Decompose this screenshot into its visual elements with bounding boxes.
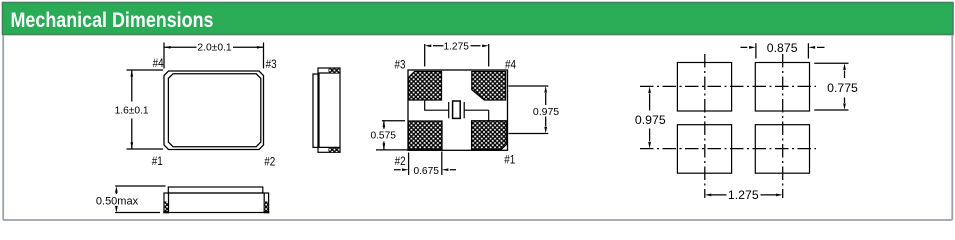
svg-text:2.0±0.1: 2.0±0.1 [197, 42, 232, 53]
svg-text:#4: #4 [153, 56, 164, 70]
svg-text:0.875: 0.875 [767, 41, 798, 55]
svg-text:#1: #1 [152, 154, 163, 168]
svg-text:#2: #2 [395, 154, 406, 168]
svg-text:#3: #3 [395, 57, 406, 71]
svg-text:1.275: 1.275 [443, 42, 469, 53]
svg-text:1.6±0.1: 1.6±0.1 [115, 106, 149, 117]
svg-text:#3: #3 [266, 57, 277, 71]
svg-text:#4: #4 [505, 57, 516, 71]
svg-text:0.575: 0.575 [370, 130, 396, 141]
svg-text:#2: #2 [264, 154, 275, 168]
svg-text:0.50max: 0.50max [96, 195, 139, 207]
svg-text:0.975: 0.975 [533, 106, 559, 118]
svg-text:0.675: 0.675 [413, 166, 439, 177]
svg-text:0.975: 0.975 [635, 113, 666, 127]
svg-text:Mechanical Dimensions: Mechanical Dimensions [11, 8, 214, 32]
svg-text:#1: #1 [504, 153, 515, 167]
svg-text:0.775: 0.775 [827, 81, 858, 95]
svg-text:1.275: 1.275 [728, 188, 759, 202]
